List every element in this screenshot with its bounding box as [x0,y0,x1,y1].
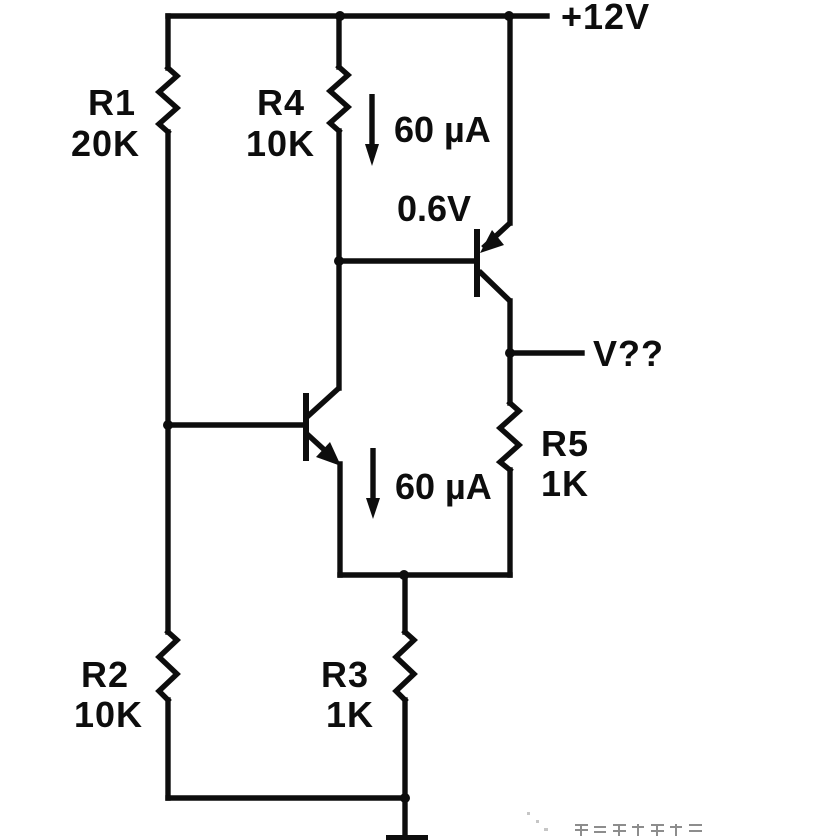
wire node to R5 [507,353,512,403]
wire ground stub [402,798,407,836]
watermark [527,812,702,836]
svg-text:0.6V: 0.6V [397,188,471,229]
node dot bottom-middle / R3 [399,570,409,580]
svg-text:R4: R4 [257,82,305,123]
wire bottom-middle horizontal [340,572,510,577]
wire R4 top [336,16,341,67]
wire R4 bottom to node [336,131,341,261]
wire R3 bottom to bottom rail [402,700,407,798]
node dot R4 bottom junction [334,256,344,266]
svg-text:60 µA: 60 µA [395,466,492,507]
resistor R1 [159,68,177,132]
wire Q1 base horizontal [339,258,475,263]
transistor Q1 (PNP, top) [477,223,510,301]
svg-text:10K: 10K [246,123,315,164]
wire top rail +12V [168,13,547,18]
svg-text:R1: R1 [88,82,136,123]
wire Q1 collector vertical to V?? node [507,301,512,353]
node dot bottom rail / ground [400,793,410,803]
wire V?? stub [510,350,582,355]
wire left vertical (top rail to R1) [165,16,170,68]
wire node to Q2 collector vertical [336,261,341,388]
current arrow 60uA top [365,94,379,166]
wire left vertical (R1 to R2) [165,132,170,632]
svg-text:10K: 10K [74,694,143,735]
resistor R3 [396,632,414,700]
node dot V?? junction [505,348,515,358]
wire Q1 emitter vertical from rail [507,16,512,223]
ground [386,835,428,840]
node dot left rail / Q2 base [163,420,173,430]
wire Q2 emitter vertical [337,464,342,575]
svg-text:V??: V?? [593,333,664,374]
svg-text:R5: R5 [541,423,589,464]
node dot top rail / Q1 emitter [504,11,514,21]
resistor R5 [500,403,519,470]
svg-text:R2: R2 [81,654,129,695]
svg-text:1K: 1K [326,694,374,735]
wire bottom-left horizontal [168,795,405,800]
svg-text:R3: R3 [321,654,369,695]
svg-text:+12V: +12V [561,0,650,37]
wire left vertical (R2 to bottom rail) [165,700,170,798]
wire node to R3 [402,575,407,632]
wire R5 bottom [507,470,512,575]
current arrow 60uA bottom [366,448,380,519]
transistor Q2 (NPN, middle) [168,388,341,466]
resistor R2 [159,632,177,700]
svg-text:20K: 20K [71,123,140,164]
svg-text:1K: 1K [541,463,589,504]
node dot top rail / R4 [335,11,345,21]
svg-text:60 µA: 60 µA [394,109,491,150]
resistor R4 [330,67,348,131]
